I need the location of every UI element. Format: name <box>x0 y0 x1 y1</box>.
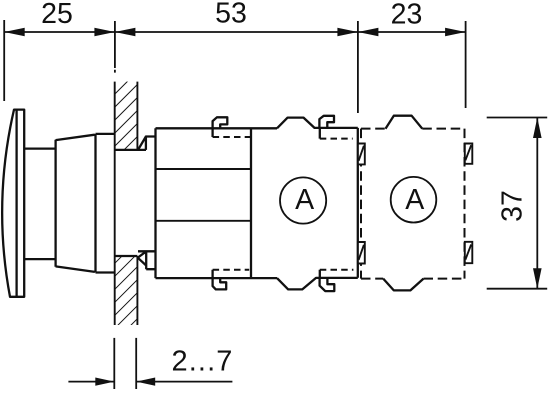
dimension 37 extension line top <box>487 117 548 119</box>
dimension line 23 <box>358 31 466 33</box>
adapter bottom hidden line <box>213 269 250 271</box>
panel front edge <box>114 82 116 325</box>
panel thickness extension line left <box>113 338 115 389</box>
contact block 2 dashed top edge <box>361 128 465 130</box>
panel rear edge lower <box>136 256 138 325</box>
dimension 37 extension line bottom <box>487 288 548 290</box>
svg-text:2...7: 2...7 <box>172 346 234 378</box>
contact block 1 top latch <box>319 116 334 139</box>
dimension 25 extension line left <box>3 20 5 101</box>
panel thickness dimension line right <box>136 381 232 383</box>
contact block 1 right edge <box>357 128 359 278</box>
panel hole bottom edge <box>115 255 138 257</box>
panel thickness extension line right <box>135 338 137 389</box>
dimension extension line at panel front <box>114 21 116 73</box>
contact block 1 top edge <box>277 118 358 129</box>
panel hatching lower <box>115 256 138 325</box>
frustum top edge <box>56 135 95 140</box>
adapter inner line lower <box>156 220 252 222</box>
contact block 2 terminal top <box>465 144 473 164</box>
frustum bottom edge <box>56 266 95 272</box>
contact block 2 dashed left edge <box>360 129 362 279</box>
contact block 2 marker circle <box>391 177 437 223</box>
top mounting clip <box>138 137 156 150</box>
dimension extension line at block1 right <box>357 21 359 113</box>
contact block 2 dashed right edge <box>464 129 466 279</box>
bezel top edge <box>96 133 115 135</box>
contact block 2 top notch <box>386 116 423 129</box>
contact block 1 bottom hidden line <box>320 269 354 271</box>
svg-text:A: A <box>405 184 424 216</box>
svg-text:37: 37 <box>497 190 529 222</box>
panel hole top edge <box>115 149 146 151</box>
dimension line 37 <box>536 118 538 289</box>
contact block 1 terminal top <box>358 144 365 165</box>
bezel bottom edge <box>96 271 115 273</box>
panel thickness dimension line left <box>68 381 114 383</box>
button neck bottom edge <box>24 258 55 260</box>
frustum front edge <box>54 140 56 267</box>
contact block 2 terminal bottom <box>465 242 473 263</box>
adapter housing outline <box>156 128 278 278</box>
dimension line 25 <box>4 31 115 33</box>
dimension extension line at block2 right <box>465 21 467 108</box>
bezel front edge <box>94 134 96 273</box>
adapter top hidden line <box>213 136 251 138</box>
svg-text:25: 25 <box>41 0 73 30</box>
bottom mounting clip <box>138 251 156 269</box>
panel hatching upper <box>115 82 138 150</box>
contact block 1 bottom latch <box>320 270 335 291</box>
svg-text:A: A <box>295 184 314 216</box>
contact block 1 terminal bottom <box>358 242 365 264</box>
contact block 2 dashed bottom edge <box>361 278 465 280</box>
adapter bottom latch <box>213 270 227 290</box>
svg-text:23: 23 <box>391 0 423 31</box>
contact block 2 bottom notch <box>383 279 423 291</box>
adapter inner line upper <box>156 168 252 170</box>
dimension line 53 <box>115 31 358 33</box>
panel rear edge upper <box>136 82 138 150</box>
adapter right boundary <box>250 128 252 278</box>
contact block 1 marker circle <box>280 177 326 223</box>
mushroom cap <box>2 110 24 297</box>
button neck top edge <box>24 147 55 149</box>
contact block 1 top hidden line <box>320 138 353 140</box>
svg-text:53: 53 <box>215 0 247 30</box>
mushroom cap rim line <box>15 110 17 297</box>
adapter top latch <box>213 117 228 137</box>
contact block 1 bottom edge <box>277 278 358 290</box>
